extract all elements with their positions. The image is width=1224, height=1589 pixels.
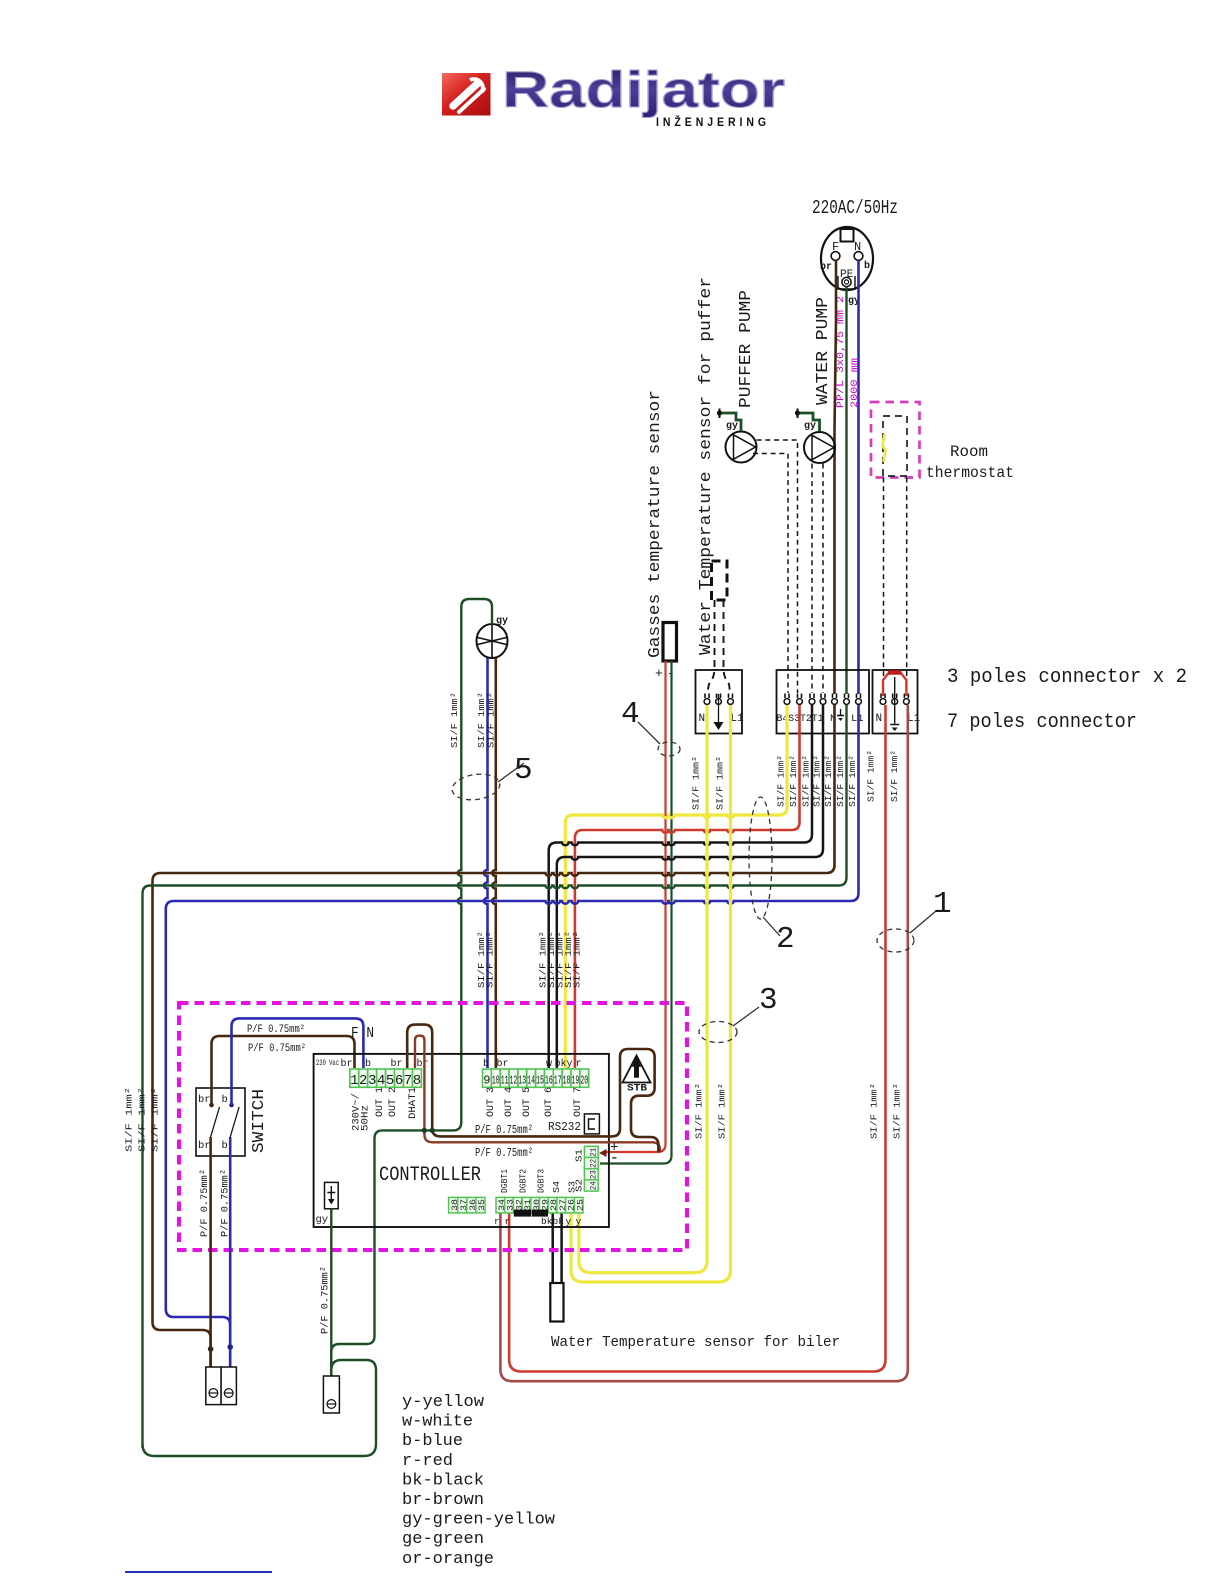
svg-text:3: 3 xyxy=(368,1073,376,1089)
svg-text:b: b xyxy=(222,1140,228,1152)
company logo Radijator xyxy=(442,61,785,129)
svg-text:Gasses temperature sensor: Gasses temperature sensor xyxy=(645,390,664,658)
svg-text:SI/F 1mm²: SI/F 1mm² xyxy=(892,1083,903,1139)
wire green-yellow gy symbol to terminal xyxy=(330,1209,332,1376)
leader line 4 xyxy=(638,722,660,744)
junction dot green-brown 2 xyxy=(430,1128,435,1133)
svg-text:11: 11 xyxy=(501,1074,509,1088)
wire red controller 33 to J3 N xyxy=(509,705,885,1372)
svg-text:Water Temperature sensor for b: Water Temperature sensor for biler xyxy=(551,1335,840,1351)
svg-text:SI/F 1mm²: SI/F 1mm² xyxy=(715,756,726,810)
red bridge top bold xyxy=(888,670,901,675)
svg-text:SI/F 1mm²: SI/F 1mm² xyxy=(835,755,846,807)
dashed wire puffer sensor right to J1 xyxy=(724,600,731,692)
terminal cell 2 xyxy=(359,1069,368,1087)
dashed wire puffer pump to J2 pin S3 xyxy=(757,440,798,693)
svg-text:y: y xyxy=(567,1059,573,1070)
wire black controller 28 to boiler sensor xyxy=(551,1213,554,1283)
svg-text:22: 22 xyxy=(589,1159,599,1168)
terminal cell 37 xyxy=(458,1197,467,1213)
J2 pin 3 xyxy=(809,694,815,705)
svg-text:OUT 2: OUT 2 xyxy=(388,1087,399,1117)
svg-text:SI/F 1mm²: SI/F 1mm² xyxy=(485,931,496,988)
gy single terminal X2 xyxy=(323,1376,339,1413)
svg-text:SI/F 1mm²: SI/F 1mm² xyxy=(572,931,583,988)
svg-text:10: 10 xyxy=(492,1074,500,1088)
terminal cell 6 xyxy=(395,1069,404,1087)
footer blue line xyxy=(125,1571,272,1573)
svg-text:N: N xyxy=(876,713,883,725)
terminal cell 13 xyxy=(518,1069,527,1087)
svg-text:19: 19 xyxy=(572,1074,580,1088)
svg-text:or-orange: or-orange xyxy=(402,1550,494,1569)
wire blue fan to controller pin 9 xyxy=(484,658,488,1068)
connector J1 3-poles box xyxy=(696,670,743,734)
svg-text:r: r xyxy=(494,1216,500,1227)
svg-text:y-yellow: y-yellow xyxy=(402,1393,485,1412)
svg-text:50Hz: 50Hz xyxy=(361,1105,372,1131)
svg-text:w: w xyxy=(546,1059,552,1070)
svg-text:3: 3 xyxy=(759,983,778,1018)
dashed wire water pump to J2 pin T2 xyxy=(811,464,813,694)
dashed wire puffer pump to J2 pin B4 xyxy=(753,454,788,694)
svg-text:S4: S4 xyxy=(552,1181,562,1193)
svg-text:r: r xyxy=(576,1059,582,1070)
svg-text:OUT 7: OUT 7 xyxy=(573,1087,584,1117)
wire brown STB loop xyxy=(620,1049,658,1152)
terminal cell 26 xyxy=(566,1197,575,1213)
plug pin F xyxy=(831,252,840,261)
svg-text:5: 5 xyxy=(386,1073,394,1089)
svg-text:4: 4 xyxy=(377,1073,385,1089)
S terminal cell 23 xyxy=(584,1169,598,1180)
svg-text:r-red: r-red xyxy=(402,1452,453,1471)
wire blue switch to mains terminal xyxy=(229,1137,232,1367)
leader line 5 xyxy=(498,763,524,782)
svg-text:b-blue: b-blue xyxy=(402,1432,463,1451)
thermostat yellow element xyxy=(883,434,886,462)
red wire arrowhead at S1 a xyxy=(599,1149,607,1157)
svg-text:-: - xyxy=(610,1149,620,1167)
puffer pump M2 symbol xyxy=(726,432,757,463)
gasses temperature sensor B2 xyxy=(663,623,677,662)
wire blue bottom to mains terminal xyxy=(166,1309,230,1367)
svg-text:7: 7 xyxy=(404,1073,412,1089)
svg-text:y: y xyxy=(566,1216,572,1227)
J3 pin N xyxy=(880,694,886,705)
J3 pin L1 xyxy=(904,694,910,705)
terminal cell 15 xyxy=(536,1069,545,1087)
svg-text:STB: STB xyxy=(627,1084,647,1095)
svg-text:br: br xyxy=(497,1058,509,1070)
leader line 3 xyxy=(733,1007,759,1026)
wire black controller 27 to boiler sensor xyxy=(560,1213,563,1283)
svg-text:SI/F 1mm²: SI/F 1mm² xyxy=(776,755,787,807)
svg-text:bk: bk xyxy=(541,1216,553,1227)
terminal cell 33 xyxy=(505,1197,514,1213)
svg-text:35: 35 xyxy=(477,1199,487,1211)
svg-text:P/F 0.75mm²: P/F 0.75mm² xyxy=(320,1266,332,1334)
terminal cell 28 xyxy=(548,1197,557,1213)
dashed wire thermostat to J3 right xyxy=(906,478,908,677)
terminal cell 35 xyxy=(476,1197,485,1213)
junction dot blue mains xyxy=(227,1344,233,1350)
wire green gasses sensor to S1 b xyxy=(600,661,672,1164)
svg-text:17: 17 xyxy=(554,1074,562,1088)
svg-text:SI/F 1mm²: SI/F 1mm² xyxy=(486,692,497,748)
puffer pump gy terminal dot xyxy=(719,409,721,419)
water pump gy terminal dot xyxy=(797,409,799,419)
J1 ground arrow xyxy=(718,694,720,722)
wire green-yellow bottom loop to gy terminal xyxy=(143,1360,377,1456)
dashed wire water pump to J2 pin T1 xyxy=(822,464,824,694)
terminal stack S1 S2 xyxy=(0,0,1,1)
svg-text:br: br xyxy=(391,1058,403,1070)
J2 pin 6 xyxy=(844,694,850,705)
svg-text:OUT 3: OUT 3 xyxy=(486,1087,497,1117)
svg-text:br: br xyxy=(198,1094,211,1106)
wire blue switch to controller pin 2 xyxy=(232,1018,364,1105)
leader line 1 xyxy=(910,911,936,933)
svg-text:S3: S3 xyxy=(568,1181,578,1193)
J2 ground symbol xyxy=(840,709,842,715)
svg-text:2: 2 xyxy=(776,922,795,957)
terminal cell 3 xyxy=(368,1069,377,1087)
svg-text:OUT 4: OUT 4 xyxy=(504,1087,515,1117)
plug pin PE xyxy=(842,277,851,286)
wire blue plug N to connector J2 pin L1 xyxy=(857,261,860,695)
wire brown switch to mains terminal xyxy=(209,1137,212,1367)
wire brown loop controller pin 8 xyxy=(415,1036,660,1152)
svg-text:L1: L1 xyxy=(731,713,745,725)
svg-text:DHAT1: DHAT1 xyxy=(408,1087,419,1119)
svg-text:SI/F 1mm²: SI/F 1mm² xyxy=(889,750,900,802)
J1 pin N xyxy=(704,694,710,705)
svg-text:SWITCH: SWITCH xyxy=(250,1089,269,1153)
junction dot brown mains xyxy=(208,1346,214,1352)
svg-text:P/F 0.75mm²: P/F 0.75mm² xyxy=(199,1169,211,1237)
wire black J2 T2 to controller pin 16 xyxy=(549,705,812,1068)
svg-text:SI/F 1mm²: SI/F 1mm² xyxy=(449,692,460,748)
jumper bar 30-29 xyxy=(532,1210,548,1217)
cable mark 1 ellipse xyxy=(877,929,914,952)
terminal cell 1 xyxy=(350,1069,359,1087)
svg-text:9: 9 xyxy=(483,1074,490,1088)
wire blue J2 L1 to switch junction xyxy=(166,705,859,1309)
svg-text:1: 1 xyxy=(933,887,952,922)
svg-text:F N: F N xyxy=(351,1025,374,1042)
S terminal cell 21 xyxy=(584,1146,598,1157)
svg-text:INŽENJERING: INŽENJERING xyxy=(656,114,770,129)
svg-text:gy: gy xyxy=(804,421,816,432)
switch contact 2 xyxy=(230,1107,239,1137)
svg-text:P/F 0.75mm²: P/F 0.75mm² xyxy=(220,1169,232,1237)
terminal cell 32 xyxy=(513,1197,522,1213)
S terminal cell 22 xyxy=(584,1158,598,1169)
cable mark 4 ellipse xyxy=(658,742,680,756)
svg-text:ge-green: ge-green xyxy=(402,1530,484,1549)
terminal cell 5 xyxy=(386,1069,395,1087)
svg-text:br: br xyxy=(820,261,832,273)
svg-text:SI/F 1mm²: SI/F 1mm² xyxy=(869,1083,880,1139)
plug pin N xyxy=(854,252,863,261)
terminal cell 29 xyxy=(540,1197,549,1213)
gy grounding symbol box xyxy=(325,1182,339,1208)
S terminal cell 24 xyxy=(584,1180,598,1191)
controller U1 box xyxy=(314,1054,609,1227)
svg-text:SI/F 1mm²: SI/F 1mm² xyxy=(124,1087,135,1152)
svg-text:SI/F 1mm²: SI/F 1mm² xyxy=(823,755,834,807)
wire brown J2 N to switch junction xyxy=(153,705,835,1322)
svg-text:SI/F 1mm²: SI/F 1mm² xyxy=(812,755,823,807)
water pump M1 symbol xyxy=(804,432,835,463)
svg-text:PUFFER PUMP: PUFFER PUMP xyxy=(737,290,756,408)
svg-text:gy: gy xyxy=(496,616,508,627)
svg-text:7 poles connector: 7 poles connector xyxy=(947,711,1137,734)
terminal cell 16 xyxy=(544,1069,553,1087)
svg-text:Water Temperature sensor for p: Water Temperature sensor for puffer xyxy=(697,277,716,655)
svg-text:S1: S1 xyxy=(575,1149,585,1162)
terminal cell 8 xyxy=(412,1069,421,1087)
svg-text:bk: bk xyxy=(553,1216,565,1227)
svg-text:OUT 1: OUT 1 xyxy=(375,1087,386,1117)
svg-text:21: 21 xyxy=(589,1148,599,1157)
J3 pin earth xyxy=(892,694,898,705)
wire brown switch to controller pin 1 xyxy=(212,1036,355,1105)
terminal cell 9 xyxy=(483,1069,492,1087)
terminal cell 36 xyxy=(467,1197,476,1213)
wire green-yellow J2 PE to bottom loop xyxy=(143,705,847,1448)
J2 pin 4 xyxy=(820,694,826,705)
leader line 2 xyxy=(763,917,780,936)
svg-text:20: 20 xyxy=(580,1074,588,1088)
svg-text:br: br xyxy=(341,1058,353,1070)
svg-text:OUT 6: OUT 6 xyxy=(544,1087,555,1117)
svg-text:1: 1 xyxy=(350,1073,358,1089)
room thermostat boundary xyxy=(871,402,920,478)
svg-text:12: 12 xyxy=(510,1074,518,1088)
svg-text:b: b xyxy=(864,260,870,272)
terminal cell 12 xyxy=(509,1069,518,1087)
J2 pin 7 xyxy=(856,694,862,705)
wire gy stub water pump xyxy=(800,413,820,432)
wire green-yellow plug PE to connector J2 xyxy=(845,287,847,695)
svg-text:SI/F 1mm²: SI/F 1mm² xyxy=(137,1087,148,1152)
svg-text:24: 24 xyxy=(589,1181,599,1190)
svg-text:15: 15 xyxy=(536,1074,544,1088)
svg-text:SI/F 1mm²: SI/F 1mm² xyxy=(847,755,858,807)
svg-text:4: 4 xyxy=(621,697,640,732)
cable boundary magenta box xyxy=(179,1003,687,1250)
terminal cell 38 xyxy=(449,1197,458,1213)
svg-text:8: 8 xyxy=(413,1073,421,1089)
svg-text:SI/F 1mm²: SI/F 1mm² xyxy=(788,755,799,807)
svg-text:6: 6 xyxy=(395,1073,403,1089)
svg-text:br: br xyxy=(198,1140,211,1152)
terminal cell 31 xyxy=(522,1197,531,1213)
svg-text:gy: gy xyxy=(316,1214,329,1226)
svg-text:+: + xyxy=(655,666,663,681)
wire red gasses sensor to S1 a xyxy=(604,661,666,1152)
svg-text:P/F 0.75mm²: P/F 0.75mm² xyxy=(247,1024,305,1036)
gy grounding symbol xyxy=(327,1186,335,1199)
cable mark 2 ellipse xyxy=(749,797,772,919)
switch S5 box xyxy=(196,1088,245,1156)
junction dot green-brown 1 xyxy=(422,1128,427,1133)
svg-text:bk-black: bk-black xyxy=(402,1471,484,1490)
terminal cell 4 xyxy=(377,1069,386,1087)
connector J3 3-poles box xyxy=(873,670,918,734)
svg-text:DGBT1: DGBT1 xyxy=(500,1169,510,1193)
svg-text:br: br xyxy=(417,1058,429,1070)
J1 pin L1 xyxy=(728,694,734,705)
terminal cell 10 xyxy=(491,1069,500,1087)
svg-text:DGBT3: DGBT3 xyxy=(537,1169,547,1193)
svg-text:P/F 0.75mm²: P/F 0.75mm² xyxy=(475,1146,533,1160)
svg-text:P/F 0.75mm²: P/F 0.75mm² xyxy=(248,1043,306,1055)
svg-text:b: b xyxy=(365,1058,371,1070)
svg-text:16: 16 xyxy=(545,1074,553,1088)
terminal cell 17 xyxy=(553,1069,562,1087)
red bridge loop in J3 xyxy=(883,673,906,697)
terminal cell 19 xyxy=(571,1069,580,1087)
jumper bar 32-31 xyxy=(514,1210,531,1217)
svg-text:RS232: RS232 xyxy=(548,1120,581,1134)
water temperature sensor for boiler probe xyxy=(550,1283,563,1322)
fan motor M3 symbol xyxy=(477,624,508,658)
svg-text:SI/F 1mm²: SI/F 1mm² xyxy=(694,1083,705,1139)
switch contact 1 xyxy=(211,1107,220,1137)
legend wire colors xyxy=(0,0,1,1)
wire yellow J2 B4 to controller pin 18 xyxy=(565,705,787,1068)
svg-text:r: r xyxy=(505,1216,511,1227)
svg-text:14: 14 xyxy=(527,1074,535,1088)
terminal cell 18 xyxy=(562,1069,571,1087)
J2 pin 2 xyxy=(797,694,803,705)
terminal cell 25 xyxy=(574,1197,583,1213)
cable mark 3 ellipse xyxy=(699,1022,737,1043)
STB triangle symbol xyxy=(623,1056,651,1083)
svg-text:3 poles connector x 2: 3 poles connector x 2 xyxy=(947,666,1187,689)
svg-text:SI/F 1mm²: SI/F 1mm² xyxy=(150,1087,161,1152)
puffer sensor probe xyxy=(712,561,728,600)
J1 pin earth xyxy=(716,694,722,705)
wire yellow controller 26 to J1 L1 xyxy=(571,705,731,1282)
svg-text:SI/F 1mm²: SI/F 1mm² xyxy=(801,755,812,807)
svg-text:b: b xyxy=(222,1094,228,1106)
terminal cell 34 xyxy=(496,1197,505,1213)
connector J2 7-poles box xyxy=(777,670,870,734)
svg-text:w-white: w-white xyxy=(402,1413,473,1432)
svg-text:SI/F 1mm²: SI/F 1mm² xyxy=(717,1083,728,1139)
svg-text:25: 25 xyxy=(575,1199,585,1211)
terminal cell 20 xyxy=(580,1069,589,1087)
terminal cell 7 xyxy=(404,1069,413,1087)
svg-text:CONTROLLER: CONTROLLER xyxy=(379,1164,481,1187)
terminal cell 30 xyxy=(531,1197,540,1213)
svg-text:bk: bk xyxy=(555,1058,567,1070)
svg-text:WATER PUMP: WATER PUMP xyxy=(814,297,833,405)
svg-text:br-brown: br-brown xyxy=(402,1491,484,1510)
wire brown loop controller pin 7 xyxy=(407,1025,620,1137)
switch pole dot 1 xyxy=(209,1103,214,1108)
svg-text:220AC/50Hz: 220AC/50Hz xyxy=(812,197,898,219)
plug key notch xyxy=(841,229,854,242)
terminal cell 27 xyxy=(557,1197,566,1213)
mains terminal block X1 xyxy=(206,1367,237,1405)
svg-text:Room: Room xyxy=(950,443,988,461)
J2 pin 1 xyxy=(784,694,790,705)
svg-text:P/F 0.75mm²: P/F 0.75mm² xyxy=(475,1123,533,1137)
plug PE bracket xyxy=(838,276,855,289)
J2 pin 5 xyxy=(832,694,838,705)
svg-text:SI/F 1mm²: SI/F 1mm² xyxy=(691,756,702,810)
wire brown plug F to connector J2 pin N xyxy=(835,260,837,694)
svg-text:Radijator: Radijator xyxy=(502,61,785,118)
controller terminal strip 1-8 xyxy=(0,0,1,1)
wire yellow controller 25 to J1 N xyxy=(579,705,707,1273)
svg-text:y: y xyxy=(576,1216,582,1227)
wire dark-red controller 34 to J3 L1 xyxy=(500,705,907,1381)
wire red J2 S3 to controller pin 19 xyxy=(575,705,800,1068)
wire green-yellow fan loop to controller xyxy=(331,599,492,1374)
svg-text:5: 5 xyxy=(514,753,533,788)
svg-text:gy-green-yellow: gy-green-yellow xyxy=(402,1511,556,1530)
room thermostat contact box xyxy=(883,416,907,476)
wire brown bottom to mains terminal xyxy=(153,1322,211,1367)
wire brown fan to controller pin 10 xyxy=(492,658,496,1068)
cable mark 5 ellipse xyxy=(450,771,501,802)
dashed wire thermostat to J3 left xyxy=(883,478,885,677)
svg-text:gy: gy xyxy=(726,421,738,432)
RS232 connector icon xyxy=(584,1114,599,1134)
terminal cell 11 xyxy=(500,1069,509,1087)
svg-text:13: 13 xyxy=(518,1074,526,1088)
svg-text:SI/F 1mm²: SI/F 1mm² xyxy=(866,750,877,802)
power plug P1 outline xyxy=(821,227,873,290)
wire black J2 T1 to controller pin 17 xyxy=(557,705,823,1068)
svg-text:OUT 5: OUT 5 xyxy=(522,1087,533,1117)
svg-text:23: 23 xyxy=(589,1170,599,1179)
svg-text:b: b xyxy=(483,1058,489,1070)
terminal cell 14 xyxy=(527,1069,536,1087)
svg-text:N: N xyxy=(699,713,706,725)
switch pole dot 2 xyxy=(229,1103,234,1108)
svg-text:DGBT2: DGBT2 xyxy=(519,1169,529,1193)
svg-text:18: 18 xyxy=(563,1074,571,1088)
wire gy stub puffer pump xyxy=(722,413,741,431)
dashed wire puffer sensor left to J1 xyxy=(708,600,715,692)
svg-text:2: 2 xyxy=(359,1073,367,1089)
svg-text:thermostat: thermostat xyxy=(926,464,1014,482)
J3 ground arrow xyxy=(890,677,899,725)
svg-text:230 Vac: 230 Vac xyxy=(316,1058,339,1068)
